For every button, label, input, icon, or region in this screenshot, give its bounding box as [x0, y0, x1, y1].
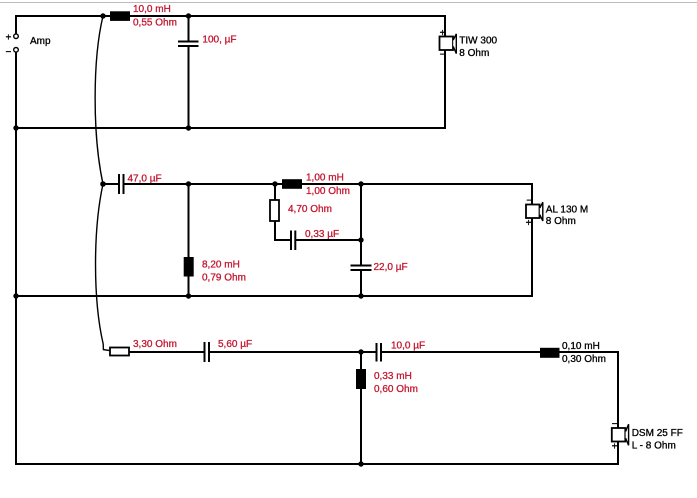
svg-text:3,30 Ohm: 3,30 Ohm [133, 339, 177, 350]
node rail2 left [13, 293, 18, 298]
amp terminal + circle [14, 34, 19, 39]
svg-text:−: − [612, 419, 618, 430]
svg-text:AL 130 M: AL 130 M [546, 204, 588, 215]
svg-text:0,10 mH: 0,10 mH [562, 341, 600, 352]
inductor L5 0,33 mH shunt [356, 352, 366, 464]
svg-text:0,30 Ohm: 0,30 Ohm [562, 354, 606, 365]
node right column mid [358, 237, 363, 242]
resistor R2 3,30 Ohm [110, 348, 129, 356]
speaker AL 130 M box [526, 205, 540, 219]
svg-text:0,33 µF: 0,33 µF [305, 229, 339, 240]
speaker AL 130 M horn [540, 202, 543, 221]
wire rail2 [15, 295, 533, 297]
inductor L3 8,20 mH [184, 184, 194, 296]
wire mid rail top [124, 183, 532, 185]
svg-text:10,0 µF: 10,0 µF [391, 341, 425, 352]
svg-text:+: + [612, 442, 618, 453]
capacitor C6 10,0 uF [377, 343, 382, 362]
capacitor C5 5,60 uF [205, 342, 210, 362]
svg-text:8 Ohm: 8 Ohm [459, 48, 489, 59]
wire right column upper [360, 184, 362, 265]
wire C3 to right column [296, 239, 362, 241]
node mid L2 tap [186, 181, 191, 186]
wire amp plus stub [15, 15, 17, 34]
capacitor C3 0,33 uF [291, 231, 295, 251]
wire TIW down stub [444, 15, 446, 37]
node rail1 cap [186, 125, 191, 130]
wire R1 to C3 [274, 239, 290, 241]
svg-text:22,0 µF: 22,0 µF [374, 262, 408, 273]
wire top rail [15, 15, 445, 17]
svg-text:4,70 Ohm: 4,70 Ohm [288, 204, 332, 215]
wire L4 to corner [560, 351, 620, 353]
node rail1 left [13, 125, 18, 130]
node bottom L5 tap [358, 349, 363, 354]
svg-text:DSM 25 FF: DSM 25 FF [632, 428, 683, 439]
inductor L2 1,00 mH [282, 179, 302, 189]
svg-text:0,33 mH: 0,33 mH [374, 371, 412, 382]
capacitor C2 47uF [119, 174, 124, 194]
svg-text:−: − [5, 47, 11, 58]
inductor L4 0,10 mH [540, 348, 560, 358]
node mid branch tap [100, 181, 106, 187]
node rail2 C4 [358, 293, 363, 298]
svg-text:8 Ohm: 8 Ohm [546, 216, 576, 227]
svg-text:5,60 µF: 5,60 µF [218, 339, 252, 350]
wire curved branch lower [96, 184, 110, 351]
wire curved branch upper [95, 16, 103, 184]
svg-text:8,20 mH: 8,20 mH [202, 260, 240, 271]
svg-text:100, µF: 100, µF [202, 35, 236, 46]
speaker TIW 300 horn [453, 34, 456, 54]
svg-text:+: + [440, 28, 446, 39]
svg-text:1,00 mH: 1,00 mH [306, 173, 344, 184]
wire DSM down [617, 351, 619, 428]
svg-text:47,0 µF: 47,0 µF [128, 173, 162, 184]
svg-text:1,00 Ohm: 1,00 Ohm [306, 186, 350, 197]
svg-text:0,79 Ohm: 0,79 Ohm [202, 273, 246, 284]
wire DSM to rail3 [617, 442, 619, 466]
svg-text:L - 8 Ohm: L - 8 Ohm [632, 441, 676, 452]
node rail3 L5 [358, 461, 363, 466]
node rail2 L3 [186, 293, 191, 298]
svg-text:10,0 mH: 10,0 mH [133, 4, 171, 15]
svg-text:−: − [526, 196, 532, 207]
node RC tap [272, 181, 277, 186]
amp terminal - circle [14, 48, 19, 53]
svg-text:Amp: Amp [30, 36, 51, 47]
wire left rail [15, 52, 17, 465]
svg-text:0,60 Ohm: 0,60 Ohm [374, 384, 418, 395]
wire C6 to L4 [382, 351, 540, 353]
capacitor C1 100uF [178, 16, 199, 128]
top border line [0, 2, 697, 4]
wire AL down stub [531, 183, 533, 205]
capacitor C4 22,0 uF [351, 266, 372, 297]
speaker DSM 25 FF box [612, 428, 626, 442]
node top cap junction [186, 13, 191, 18]
wire R2 to C5 [129, 351, 204, 353]
wire C5 to C6 [210, 351, 376, 353]
wire rail1 [15, 127, 446, 129]
wire AL to rail2 [531, 218, 533, 297]
speaker DSM 25 FF horn [626, 424, 629, 445]
node top-left junction [100, 13, 105, 18]
svg-text:0,55 Ohm: 0,55 Ohm [133, 17, 177, 28]
inductor L1 10,0 mH [110, 11, 130, 21]
wire rail3 [15, 463, 619, 465]
wire to C2 [103, 183, 118, 185]
svg-text:+: + [5, 33, 11, 44]
resistor R1 4,70 Ohm [270, 184, 279, 241]
node right column top [358, 181, 363, 186]
wire TIW to rail1 [444, 50, 446, 129]
svg-text:TIW 300: TIW 300 [459, 35, 497, 46]
speaker TIW 300 box [440, 37, 454, 51]
svg-text:+: + [526, 218, 532, 229]
